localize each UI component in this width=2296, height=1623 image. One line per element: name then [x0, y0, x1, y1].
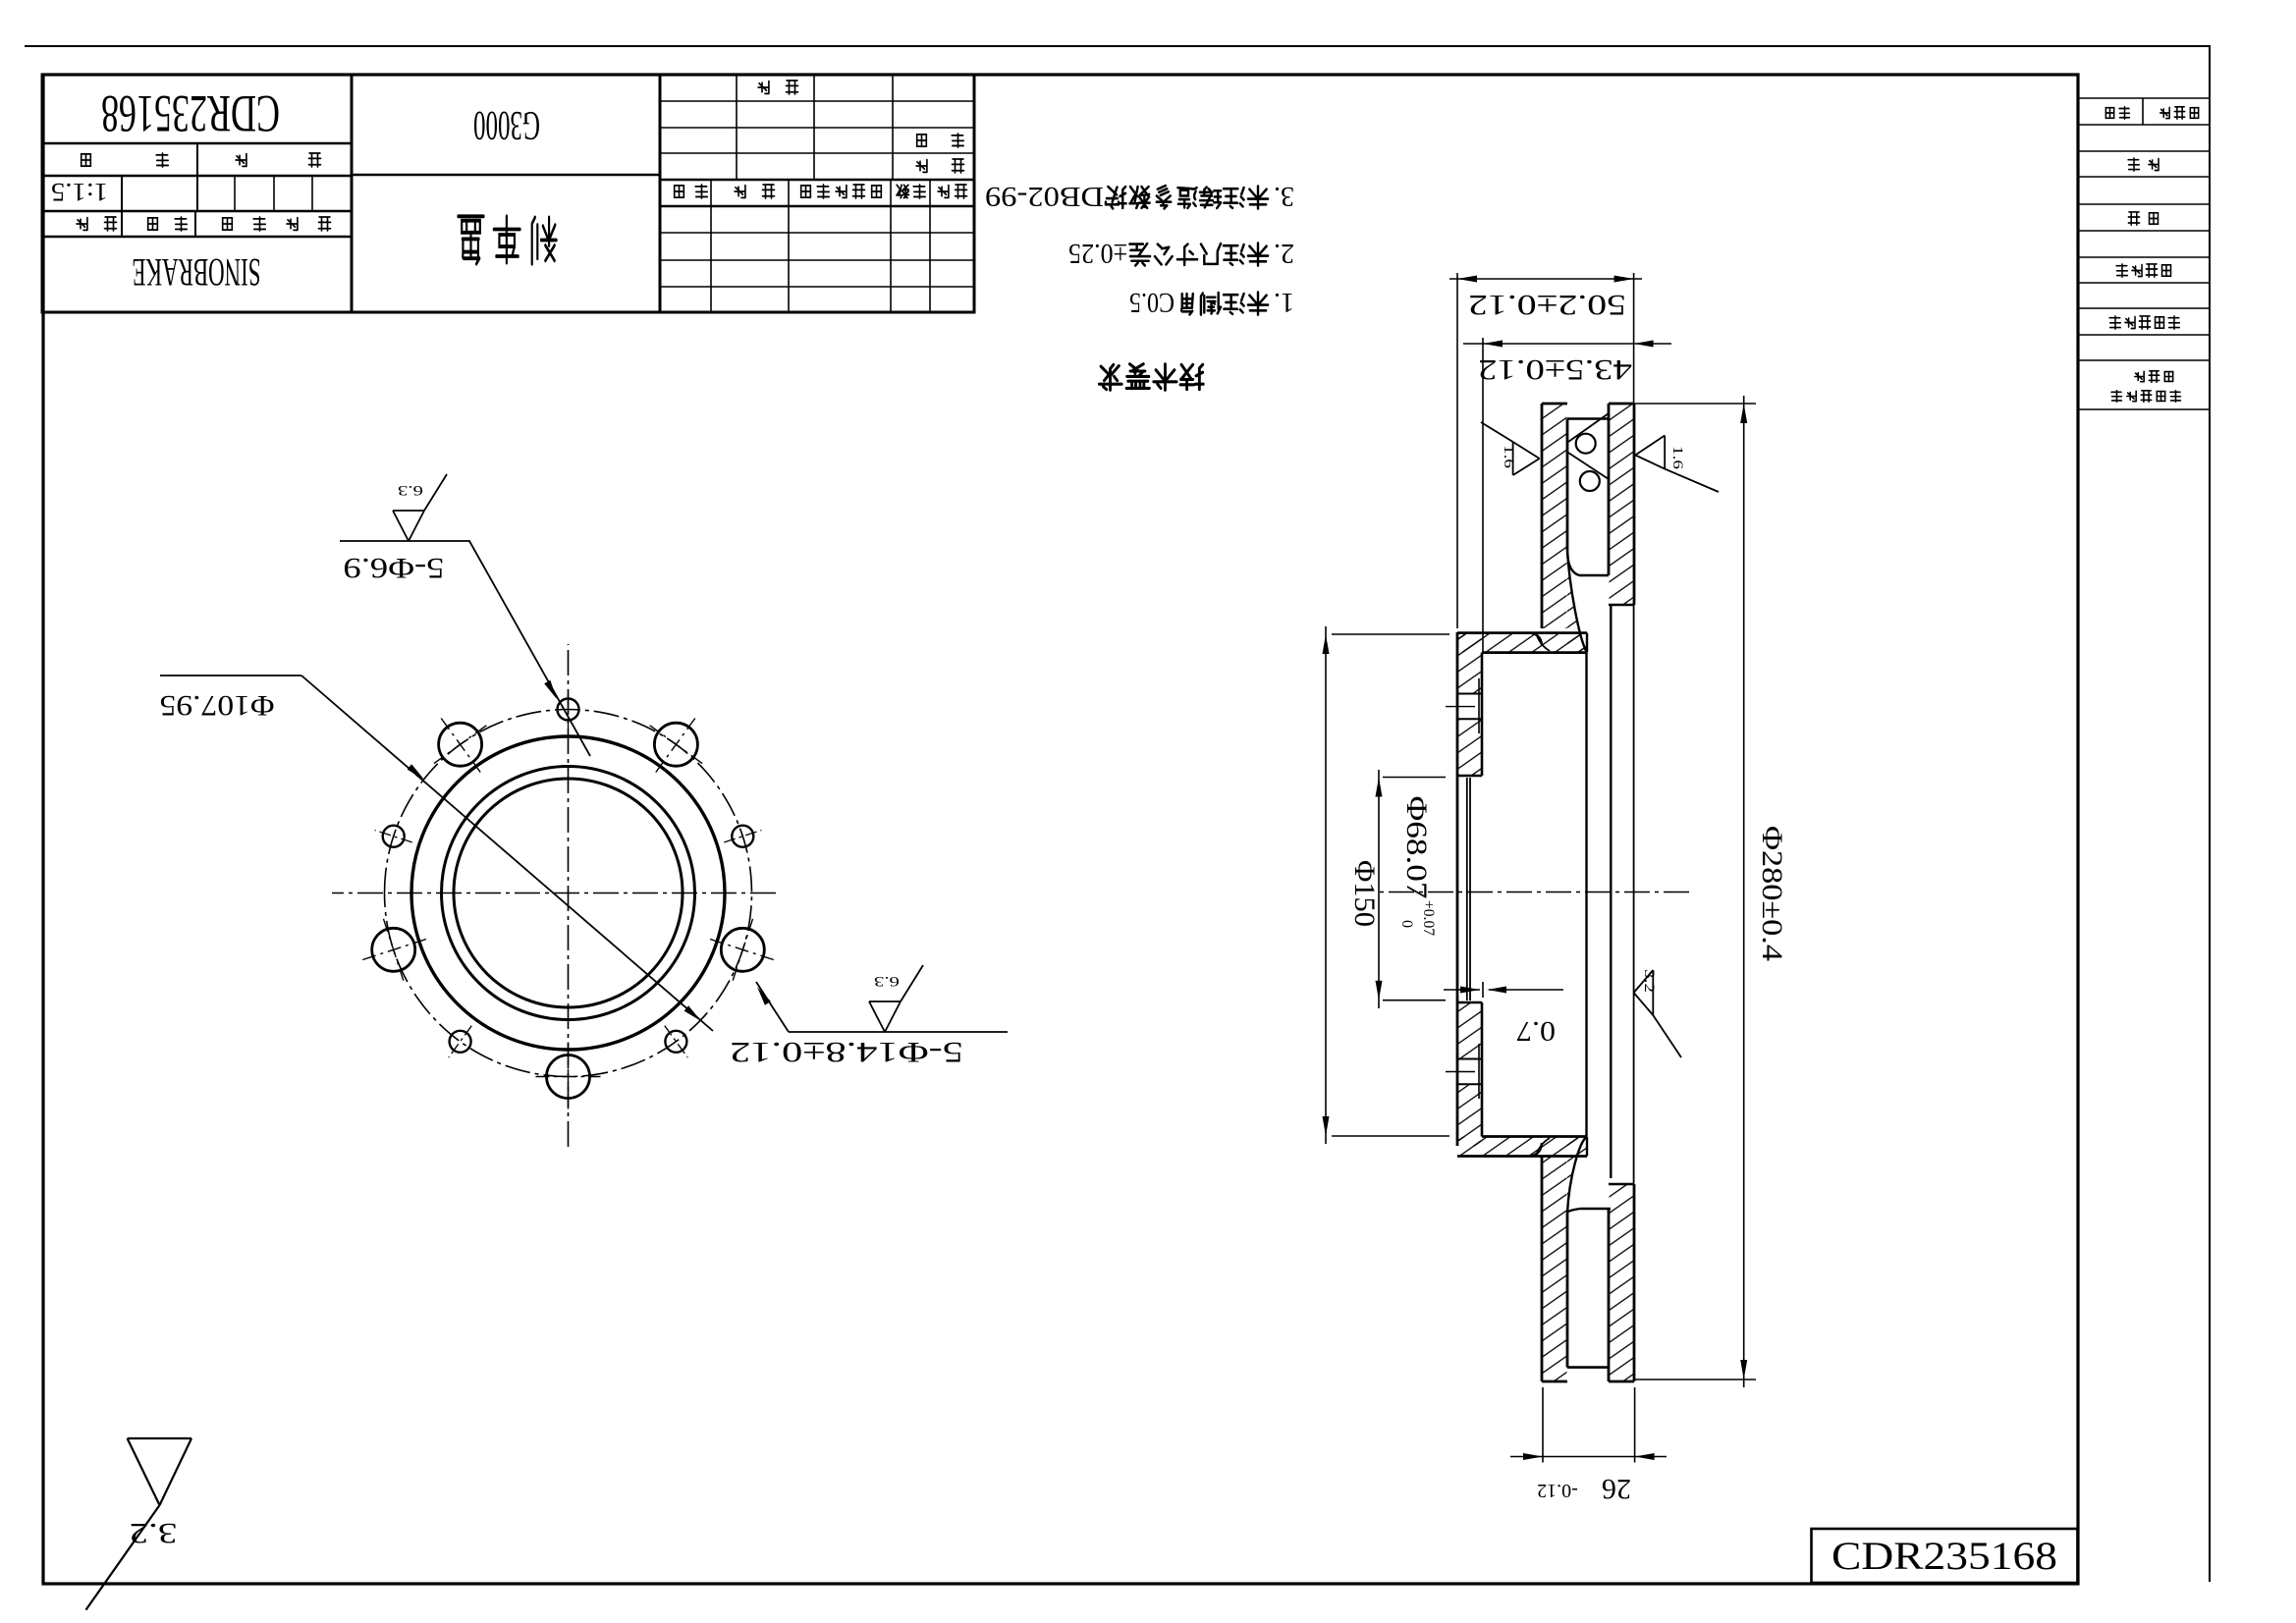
vent floor corner	[1567, 1209, 1580, 1213]
C revision row	[660, 259, 974, 261]
dim line	[1510, 1456, 1667, 1458]
svg-text:-0.12: -0.12	[1537, 1480, 1578, 1501]
svg-text:+0.07: +0.07	[1420, 900, 1437, 936]
5 large bolt holes dia 14.8	[372, 928, 415, 971]
C header col	[929, 180, 931, 312]
ext right cheek	[1634, 1387, 1636, 1463]
dim line left part	[1444, 989, 1480, 991]
label 共 张	[309, 153, 321, 167]
svg-text:3.2: 3.2	[130, 1517, 178, 1549]
ext line bottom	[1632, 403, 1756, 405]
general roughness 3.2 mark (其余)	[128, 1438, 191, 1505]
outer circle of hub face	[411, 736, 725, 1050]
inboard friction cheek	[1633, 1184, 1636, 1381]
arrowhead at bolt circle near side	[408, 764, 424, 780]
ext left(flange inner)	[1482, 338, 1484, 652]
label 签字	[763, 185, 775, 198]
label 制图	[952, 134, 963, 147]
vane edge line upper	[1568, 413, 1609, 442]
leader to large hole	[756, 982, 789, 1032]
arrow outside right	[1635, 1453, 1655, 1460]
dim line right part	[1489, 989, 1563, 991]
top end	[1609, 1380, 1634, 1383]
divider B/C	[659, 75, 662, 312]
arrow top	[1323, 1116, 1330, 1136]
svg-text:Φ150: Φ150	[1348, 860, 1381, 927]
svg-text:3.: 3.	[1274, 181, 1294, 211]
svg-text:3.2: 3.2	[1641, 969, 1657, 993]
svg-text:C0.5: C0.5	[1129, 287, 1175, 317]
outboard cheek hatch upper	[1543, 1156, 1567, 1381]
bolt hole centermark upper	[1446, 1071, 1475, 1073]
plate hatch	[1457, 1084, 1482, 1146]
roughness 6.3 on 5-Φ6.9	[393, 511, 424, 541]
middle circle 2	[454, 779, 683, 1007]
C revision row	[660, 232, 974, 234]
svg-text:CDR235168: CDR235168	[101, 84, 280, 143]
bolt hole edge	[1457, 1058, 1482, 1060]
svg-text:CDR235168: CDR235168	[1831, 1534, 2057, 1578]
bolt hole edge	[1457, 693, 1482, 695]
svg-text:1.6: 1.6	[1501, 445, 1516, 469]
plate inner step line lower	[1478, 678, 1480, 733]
svg-text:DB02-99: DB02-99	[985, 181, 1104, 211]
inner face upper segment	[1566, 1213, 1569, 1368]
technical requirements title 技术要求	[1180, 364, 1203, 389]
bore edge lower	[1457, 775, 1482, 778]
svg-text:1:1.5: 1:1.5	[51, 178, 108, 206]
bolt hole edge	[1457, 718, 1482, 720]
hat skirt junction edge circle	[1585, 653, 1587, 1136]
dim line	[1743, 396, 1745, 1387]
svg-text:Φ107.95: Φ107.95	[160, 689, 275, 722]
transition hatch upper	[1567, 1137, 1587, 1214]
svg-text:Φ280±0.4: Φ280±0.4	[1756, 826, 1788, 961]
svg-text:50.2±0.12: 50.2±0.12	[1468, 289, 1626, 321]
svg-text:6.3: 6.3	[874, 973, 900, 989]
dim line	[1463, 343, 1671, 345]
svg-text:0: 0	[1398, 920, 1415, 928]
vent vane circles	[1576, 434, 1596, 454]
label underline	[160, 675, 301, 676]
A row 3	[42, 175, 352, 177]
label 图样标记	[319, 217, 331, 231]
roughness 6.3 on 5-Φ14.8	[869, 1001, 901, 1032]
horizontal centerline	[332, 893, 776, 894]
cast transition curves	[1567, 550, 1587, 653]
dim line	[1325, 626, 1327, 1144]
roughness 1.6 on inboard cheek surface	[1635, 436, 1665, 469]
roughness 3.2 on inboard face	[1634, 970, 1654, 1015]
strip label 底图总号	[2162, 265, 2171, 276]
inner face lower segment	[1566, 419, 1569, 551]
fillet bottom	[1530, 633, 1542, 645]
vane edge line lower	[1568, 453, 1609, 479]
A col 2	[194, 211, 196, 237]
A row 4	[42, 142, 352, 144]
mounting face	[1456, 632, 1459, 1146]
label 第 张	[156, 153, 168, 167]
vent rim closure top	[1567, 1366, 1608, 1369]
divider A/B	[351, 75, 354, 312]
arrow bottom	[1323, 634, 1330, 654]
leader arrowhead	[544, 680, 557, 699]
leader line to small hole	[469, 541, 590, 756]
arrow	[1457, 276, 1477, 283]
svg-text:26: 26	[1602, 1473, 1631, 1505]
A col 1	[121, 176, 123, 237]
middle circle 1	[442, 767, 695, 1020]
inboard cheek hatch upper	[1610, 1184, 1634, 1381]
bolt hole edge	[1457, 1083, 1482, 1085]
arrow top	[1376, 981, 1383, 1001]
svg-text:5-Φ6.9: 5-Φ6.9	[344, 552, 445, 584]
inner radius end face lower	[1609, 604, 1634, 607]
diameter leader through bolt circle	[301, 676, 713, 1031]
A row 1	[42, 236, 352, 238]
label 日期	[695, 185, 707, 198]
A col 3	[196, 143, 198, 211]
arrow outside left	[1523, 1453, 1543, 1460]
hat flange (bottom)	[1457, 631, 1587, 634]
bore edge upper	[1457, 1001, 1482, 1004]
label 处数	[913, 185, 925, 198]
svg-text:2.: 2.	[1274, 238, 1294, 268]
section axis centerline	[1375, 892, 1689, 893]
flange hatch top	[1457, 1137, 1587, 1157]
svg-text:1.6: 1.6	[1669, 446, 1685, 470]
svg-text:±0.25: ±0.25	[1068, 238, 1127, 268]
left strip: attachment block rows	[2078, 408, 2210, 410]
svg-text:5-Φ14.8±0.12: 5-Φ14.8±0.12	[730, 1036, 963, 1068]
flange left end upper	[1586, 1137, 1588, 1157]
plate inner face upper	[1481, 1002, 1484, 1137]
cheek bottom end face	[1542, 403, 1567, 406]
svg-text:6.3: 6.3	[398, 482, 423, 498]
C signature row	[660, 152, 974, 154]
svg-text:1.: 1.	[1274, 287, 1294, 317]
plate inner step line upper	[1478, 1044, 1480, 1099]
plate inner face lower	[1481, 653, 1484, 776]
A tick	[311, 176, 313, 211]
arrow bottom	[1740, 404, 1747, 423]
arrow	[1614, 276, 1634, 283]
svg-text:0.7: 0.7	[1516, 1015, 1556, 1046]
flange left end lower	[1586, 633, 1588, 653]
strip label 借(通)用件登记	[2170, 391, 2180, 402]
bottom end	[1609, 403, 1634, 406]
svg-text:Φ68.07: Φ68.07	[1400, 796, 1433, 899]
cheek top end face	[1542, 1380, 1567, 1383]
part name 刹车盘	[532, 217, 557, 263]
fillet top	[1530, 1143, 1542, 1157]
ext bottom	[1383, 777, 1446, 779]
arrow at 828	[1483, 341, 1503, 348]
strip divider	[2142, 98, 2144, 125]
A tick	[234, 176, 236, 211]
arrow outside at 674	[1634, 341, 1654, 348]
svg-text:SINOBRAKE: SINOBRAKE	[133, 250, 261, 295]
arrow bottom	[1376, 778, 1383, 797]
ext left cheek	[1542, 1387, 1544, 1463]
arrow	[1460, 987, 1480, 994]
vertical centerline	[568, 644, 570, 1147]
hat flange (top)	[1457, 1155, 1587, 1158]
ext top	[1332, 1135, 1449, 1137]
strip label 日期	[2149, 159, 2159, 171]
label underline	[789, 1031, 1008, 1033]
C revision row	[660, 286, 974, 288]
label underline	[340, 540, 470, 542]
strip label cell b	[2119, 107, 2129, 119]
ext top	[1383, 1000, 1446, 1001]
label 比例	[105, 217, 117, 231]
inner radius end face upper	[1609, 1183, 1634, 1186]
5 small holes dia 6.9	[450, 1031, 471, 1053]
arrow top	[1740, 1360, 1747, 1380]
CDR235168 stamp box (bottom right, not flipped)	[1812, 1529, 2078, 1583]
C signature col	[892, 75, 894, 180]
C signature row	[660, 127, 974, 129]
C header bottom	[660, 179, 974, 182]
label 日期 bottom	[787, 81, 798, 94]
ext left(hat face)	[1456, 273, 1458, 628]
vent rim closure bottom	[1567, 417, 1609, 420]
vent channel end lower	[1579, 574, 1609, 576]
flange hatch bottom	[1457, 633, 1587, 653]
dim line	[1449, 278, 1642, 280]
C signature col	[736, 75, 738, 180]
sheet outer edge lines	[25, 45, 2210, 47]
outboard cheek hatch lower	[1543, 404, 1567, 628]
bore surface with 0.7 recess (double line)	[1469, 778, 1471, 1001]
strip label 签字	[2150, 213, 2159, 224]
leader arrowhead	[757, 987, 771, 1005]
ext bottom	[1332, 633, 1449, 635]
cast fillet leaf lower	[1536, 633, 1550, 651]
C header col	[890, 180, 892, 312]
C header top	[660, 205, 974, 208]
C signature col	[813, 75, 815, 180]
C header col	[788, 180, 790, 312]
label 更改文件号	[872, 186, 882, 197]
C header col	[710, 180, 712, 312]
cheek face connecting line	[1633, 605, 1635, 1184]
bolt hole centermark lower	[1446, 706, 1475, 708]
roughness 1.6 on outboard cheek surface	[1513, 442, 1540, 475]
label 标记	[956, 185, 967, 198]
title block outline	[42, 75, 974, 312]
arrowhead at bolt circle far side	[684, 1005, 701, 1021]
strip label cell a	[2190, 108, 2198, 119]
B divider	[352, 174, 660, 177]
svg-text:43.5±0.12: 43.5±0.12	[1478, 353, 1632, 386]
dim line	[1378, 770, 1380, 1008]
bolt circle (dash-dot)	[385, 710, 752, 1077]
step tick	[1482, 982, 1484, 998]
transition hatch lower	[1567, 550, 1587, 653]
inboard cheek hatch lower	[1610, 404, 1634, 605]
ext right(cheek face)	[1633, 273, 1635, 404]
vent floor corner	[1567, 550, 1579, 575]
svg-text:G3000: G3000	[473, 102, 540, 147]
ext line top	[1634, 1379, 1756, 1380]
transition-to-cheek edge circle	[1610, 606, 1612, 1178]
outboard friction cheek	[1541, 1156, 1544, 1381]
label 重量	[175, 217, 187, 231]
A tick	[273, 176, 275, 211]
A row 2	[42, 210, 352, 212]
label 设计	[953, 159, 964, 173]
strip label 旧底图总号	[2168, 316, 2179, 329]
vent channel end upper	[1580, 1208, 1611, 1210]
C signature row	[660, 100, 974, 102]
arrow	[1487, 987, 1506, 994]
cast fillet leaf upper	[1536, 1138, 1550, 1156]
